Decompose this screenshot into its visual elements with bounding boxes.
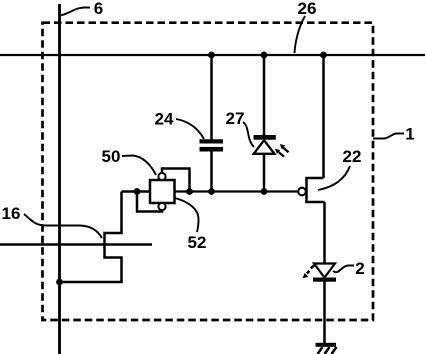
label 24 leader — [176, 119, 204, 139]
capacitor 24 bottom plate — [200, 147, 224, 152]
svg-text:50: 50 — [102, 147, 121, 166]
wire: 50 top terminal to gate net — [162, 169, 190, 192]
svg-text:27: 27 — [226, 109, 245, 128]
transistor 50 body box — [150, 180, 175, 203]
label 6 leader — [60, 8, 90, 16]
junction dot on left gate stub — [134, 188, 141, 195]
label 2 leader — [333, 266, 354, 273]
LED 2 cathode bar — [313, 278, 336, 282]
select line 16 (horizontal) — [0, 243, 152, 246]
label 22 leader — [318, 166, 350, 190]
wire: photodiode bottom stub — [263, 154, 266, 192]
junction dot at line 26 / photodiode — [261, 52, 268, 59]
junction dot at line 26 / transistor 22 — [320, 52, 327, 59]
transistor 22 channel notch — [307, 178, 325, 202]
label 26 leader — [295, 16, 306, 53]
junction dot top-wire / gate net — [186, 188, 193, 195]
data line 6 (vertical bus) — [58, 4, 61, 354]
photodiode 27 light arrow b — [275, 149, 284, 157]
junction dot at line 26 / capacitor — [208, 52, 215, 59]
svg-text:2: 2 — [355, 259, 364, 278]
wire: photodiode top stub — [263, 55, 266, 137]
transistor 50 top terminal circle — [158, 173, 165, 180]
junction dot capacitor / gate net — [208, 188, 215, 195]
photodiode 27 triangle — [254, 140, 275, 154]
wire: staircase from gate stub down to data line — [60, 192, 122, 283]
label 1 leader — [373, 134, 404, 139]
capacitor 24 top plate — [200, 139, 224, 143]
label 52 leader — [175, 198, 199, 232]
transistor 22 gate circle — [298, 188, 306, 196]
LED 2 triangle — [314, 264, 335, 278]
dashed pixel boundary box 1 — [43, 23, 374, 320]
svg-text:24: 24 — [155, 110, 174, 129]
svg-text:16: 16 — [2, 204, 21, 223]
wire: capacitor bottom stub — [210, 151, 213, 192]
wire: transistor 22 drain stub — [322, 55, 325, 178]
photodiode 27 cathode bar — [254, 135, 276, 140]
label 27 leader — [243, 122, 254, 147]
wire: 50 left gate stub — [122, 190, 151, 193]
svg-text:26: 26 — [298, 0, 317, 18]
label 50 leader — [122, 156, 156, 176]
photodiode 27 light arrow a — [280, 144, 289, 152]
wire: 50 bottom terminal loop to gate stub — [137, 192, 162, 212]
transistor 50 bottom terminal circle — [158, 203, 165, 210]
label 16 leader — [24, 214, 102, 238]
wire: LED cathode to ground — [323, 282, 326, 345]
LED 2 emission arrow — [302, 265, 314, 279]
junction dot staircase / data line 6 — [56, 279, 63, 286]
svg-text:52: 52 — [188, 233, 207, 252]
ground symbol — [316, 343, 337, 354]
svg-text:1: 1 — [405, 125, 414, 144]
svg-text:6: 6 — [94, 0, 103, 18]
wire: gate net from transistor 50 to gate of 22 — [174, 190, 299, 192]
svg-text:22: 22 — [343, 147, 362, 166]
junction dot photodiode / gate net — [261, 188, 268, 195]
wire: capacitor top stub — [210, 55, 213, 141]
power supply line 26 (horizontal bus) — [0, 54, 425, 56]
wire: transistor 22 source down to LED — [323, 202, 326, 264]
